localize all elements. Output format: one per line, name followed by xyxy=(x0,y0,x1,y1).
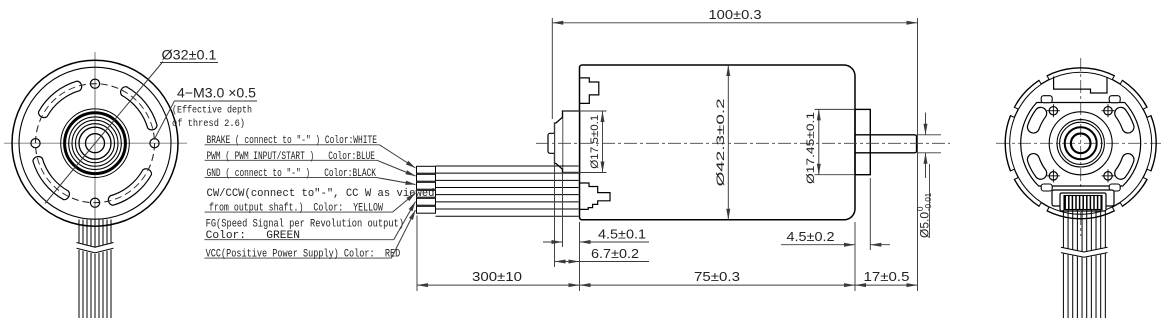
rear view shaft end circle xyxy=(1071,134,1091,154)
rear view cover bottom-right ear xyxy=(1109,184,1120,191)
side view rear bearing boss xyxy=(855,109,870,174)
rear view ring r21 xyxy=(1060,122,1102,164)
dim 4.5a arrows xyxy=(543,241,563,243)
rear view connector housing xyxy=(1052,190,1114,206)
side view top-left terminal step detail xyxy=(580,78,599,104)
rear view vent slot 3 xyxy=(1027,154,1046,180)
svg-text:of thresd 2.6): of thresd 2.6) xyxy=(172,118,245,130)
front view pilot thick ring xyxy=(65,113,126,174)
front view ring r26 xyxy=(69,117,122,170)
svg-text:Ø42.3±0.2: Ø42.3±0.2 xyxy=(715,98,727,186)
wire label 4 leader xyxy=(393,193,416,212)
front view bearing boss circle xyxy=(61,109,130,178)
rear view wire bundle xyxy=(1062,210,1064,318)
rear view ring r31.5 xyxy=(1049,112,1112,175)
side view front pilot nub xyxy=(548,133,555,153)
front view ring r23 xyxy=(72,120,118,166)
rear view wire break mark xyxy=(1061,247,1108,258)
wire label 6 underline xyxy=(204,257,391,259)
dim dia5 text underline xyxy=(929,164,931,238)
svg-text:300±10: 300±10 xyxy=(472,269,522,284)
rear view cover outline xyxy=(1021,103,1141,187)
rear view cover top-left ear xyxy=(1041,96,1052,103)
side view front chamfered ring xyxy=(555,117,563,169)
svg-text:Ø32±0.1: Ø32±0.1 xyxy=(162,48,217,63)
svg-text:PWM ( PWM INPUT/START ) Colo: PWM ( PWM INPUT/START ) Color:BLUE xyxy=(207,151,376,163)
svg-text:100±0.3: 100±0.3 xyxy=(709,7,762,22)
dim 4.5b extension lines xyxy=(854,222,856,291)
wire label 1 leader xyxy=(379,145,415,168)
svg-text:Ø17.45±0.1: Ø17.45±0.1 xyxy=(805,112,817,184)
front view M3 screw hole 1 xyxy=(90,79,99,88)
svg-text:FG(Speed Signal per Revolution: FG(Speed Signal per Revolution output) xyxy=(206,219,404,231)
front view ring r19.5 xyxy=(76,124,115,163)
svg-text:(Effective depth: (Effective depth xyxy=(172,105,252,117)
svg-text:6.7±0.2: 6.7±0.2 xyxy=(591,246,639,261)
dim dia5 upper arrow xyxy=(925,113,927,135)
rear view rim notches xyxy=(1143,107,1152,118)
dim dia17.5 line xyxy=(602,111,604,173)
side view output shaft xyxy=(855,135,917,153)
rear view vent slot 4 xyxy=(1115,154,1134,180)
front view vent slot 3 xyxy=(33,157,69,200)
wire label 1 underline xyxy=(205,144,380,146)
dim dia17.45 extension lines xyxy=(815,108,856,110)
wire label 3 leader xyxy=(377,178,416,185)
front view lead wire bundle xyxy=(78,220,80,318)
wire label 2 underline xyxy=(205,159,377,161)
dim dia5 lower arrow xyxy=(925,153,927,178)
dim 100 extension line right xyxy=(917,18,919,291)
dim dia42.3 line xyxy=(727,65,729,220)
dim dia17.45 line xyxy=(818,109,820,174)
dim 300 line xyxy=(417,284,580,286)
front view bolt circle dashes over slots xyxy=(36,84,155,203)
rear view vent slot 2 xyxy=(1027,107,1046,133)
rear view screw head 4 xyxy=(1104,172,1112,180)
svg-text:17±0.5: 17±0.5 xyxy=(864,269,910,284)
rear view screw head 2 xyxy=(1049,107,1057,115)
svg-text:75±0.3: 75±0.3 xyxy=(694,269,740,284)
dim 300 extension line xyxy=(416,216,418,292)
dim dia17.5 extension lines xyxy=(563,110,607,112)
front view vent slot 1 xyxy=(121,87,157,130)
rear view top terminal tab xyxy=(1054,77,1107,94)
side view motor body outline xyxy=(580,65,856,220)
svg-text:4.5±0.1: 4.5±0.1 xyxy=(598,227,646,242)
front view bolt circle (dashed) xyxy=(36,84,155,203)
rear view outer housing circle xyxy=(1005,68,1156,219)
dim dia5 text xyxy=(916,192,933,238)
rear view screw head 1 xyxy=(1104,107,1112,115)
rear view cover bottom-left ear xyxy=(1041,184,1052,191)
svg-text:-0.01: -0.01 xyxy=(924,192,933,211)
front view shaft circle xyxy=(86,134,105,153)
rear view vent slot 1 xyxy=(1115,107,1134,133)
front view center crosshair xyxy=(4,142,187,144)
rear view screw head 3 xyxy=(1049,172,1057,180)
rear view connector inner xyxy=(1060,193,1106,211)
side view wire exit grommet detail xyxy=(580,183,610,209)
rear view cover top-right ear xyxy=(1109,96,1120,103)
front view bearing circle xyxy=(79,127,111,159)
dim 17 line xyxy=(855,284,918,286)
front view inner rim circle xyxy=(19,67,171,219)
wire label 6 leader xyxy=(391,210,415,258)
rear view inner rim circle xyxy=(1010,72,1152,214)
rear view crosshair xyxy=(996,142,1161,144)
svg-text:VCC(Positive Power Supply) Col: VCC(Positive Power Supply) Color: RED xyxy=(206,249,401,261)
front view vent slot 4 xyxy=(108,169,151,205)
dim body-left extension line xyxy=(579,222,581,291)
side view wire terminal boxes xyxy=(417,166,436,173)
front view vent slot 2 xyxy=(38,81,81,117)
dim 75 line xyxy=(580,284,856,286)
svg-text:4.5±0.2: 4.5±0.2 xyxy=(787,229,835,244)
wire label 3 underline xyxy=(205,177,377,179)
side view wire bundle lines xyxy=(436,165,579,167)
dim 100 line xyxy=(552,22,917,24)
front view M3 screw hole 3 xyxy=(90,198,99,207)
rear view bearing ring xyxy=(1065,127,1097,159)
dim dia5 extension lines xyxy=(917,134,942,136)
svg-text:Ø5.0: Ø5.0 xyxy=(918,212,932,238)
wire label 5 leader xyxy=(394,202,416,240)
wire label 2 leader xyxy=(377,160,416,176)
wire label 5 underline xyxy=(204,239,393,241)
rear view ring r23.7 xyxy=(1057,120,1104,167)
svg-text:GND ( connect to "-" ) Color: GND ( connect to "-" ) Color:BLACK xyxy=(207,168,377,180)
rear view connector ribs xyxy=(1064,196,1102,210)
svg-text:Color: GREEN: Color: GREEN xyxy=(206,230,300,242)
svg-text:from output shaft.) Color: Y: from output shaft.) Color: YELLOW xyxy=(209,203,383,215)
dim 4.5b arrows xyxy=(781,244,855,246)
dim 6.7 arrows xyxy=(555,261,580,263)
side view centerline xyxy=(536,142,950,144)
front view outer housing circle xyxy=(12,60,178,226)
dim 100 extension line left xyxy=(551,18,553,119)
front view M3 screw hole 2 xyxy=(150,139,159,148)
leader for 4-M3.0 threads xyxy=(154,101,174,140)
svg-text:Ø17.5±0.1: Ø17.5±0.1 xyxy=(589,115,601,169)
dim 4.5a extension line xyxy=(562,173,564,248)
svg-text:CW/CCW(connect to"-", CC W as: CW/CCW(connect to"-", CC W as viewed xyxy=(207,188,435,200)
side view front end-cap plate xyxy=(563,111,580,173)
front view M3 screw hole 4 xyxy=(31,139,40,148)
front view wire break mark xyxy=(77,243,114,255)
leader for dia 32 dimension xyxy=(45,62,163,204)
svg-text:4−M3.0 ×0.5: 4−M3.0 ×0.5 xyxy=(177,86,256,101)
wire label 4 underline xyxy=(205,211,393,213)
dim 6.7 extension line xyxy=(554,123,556,267)
